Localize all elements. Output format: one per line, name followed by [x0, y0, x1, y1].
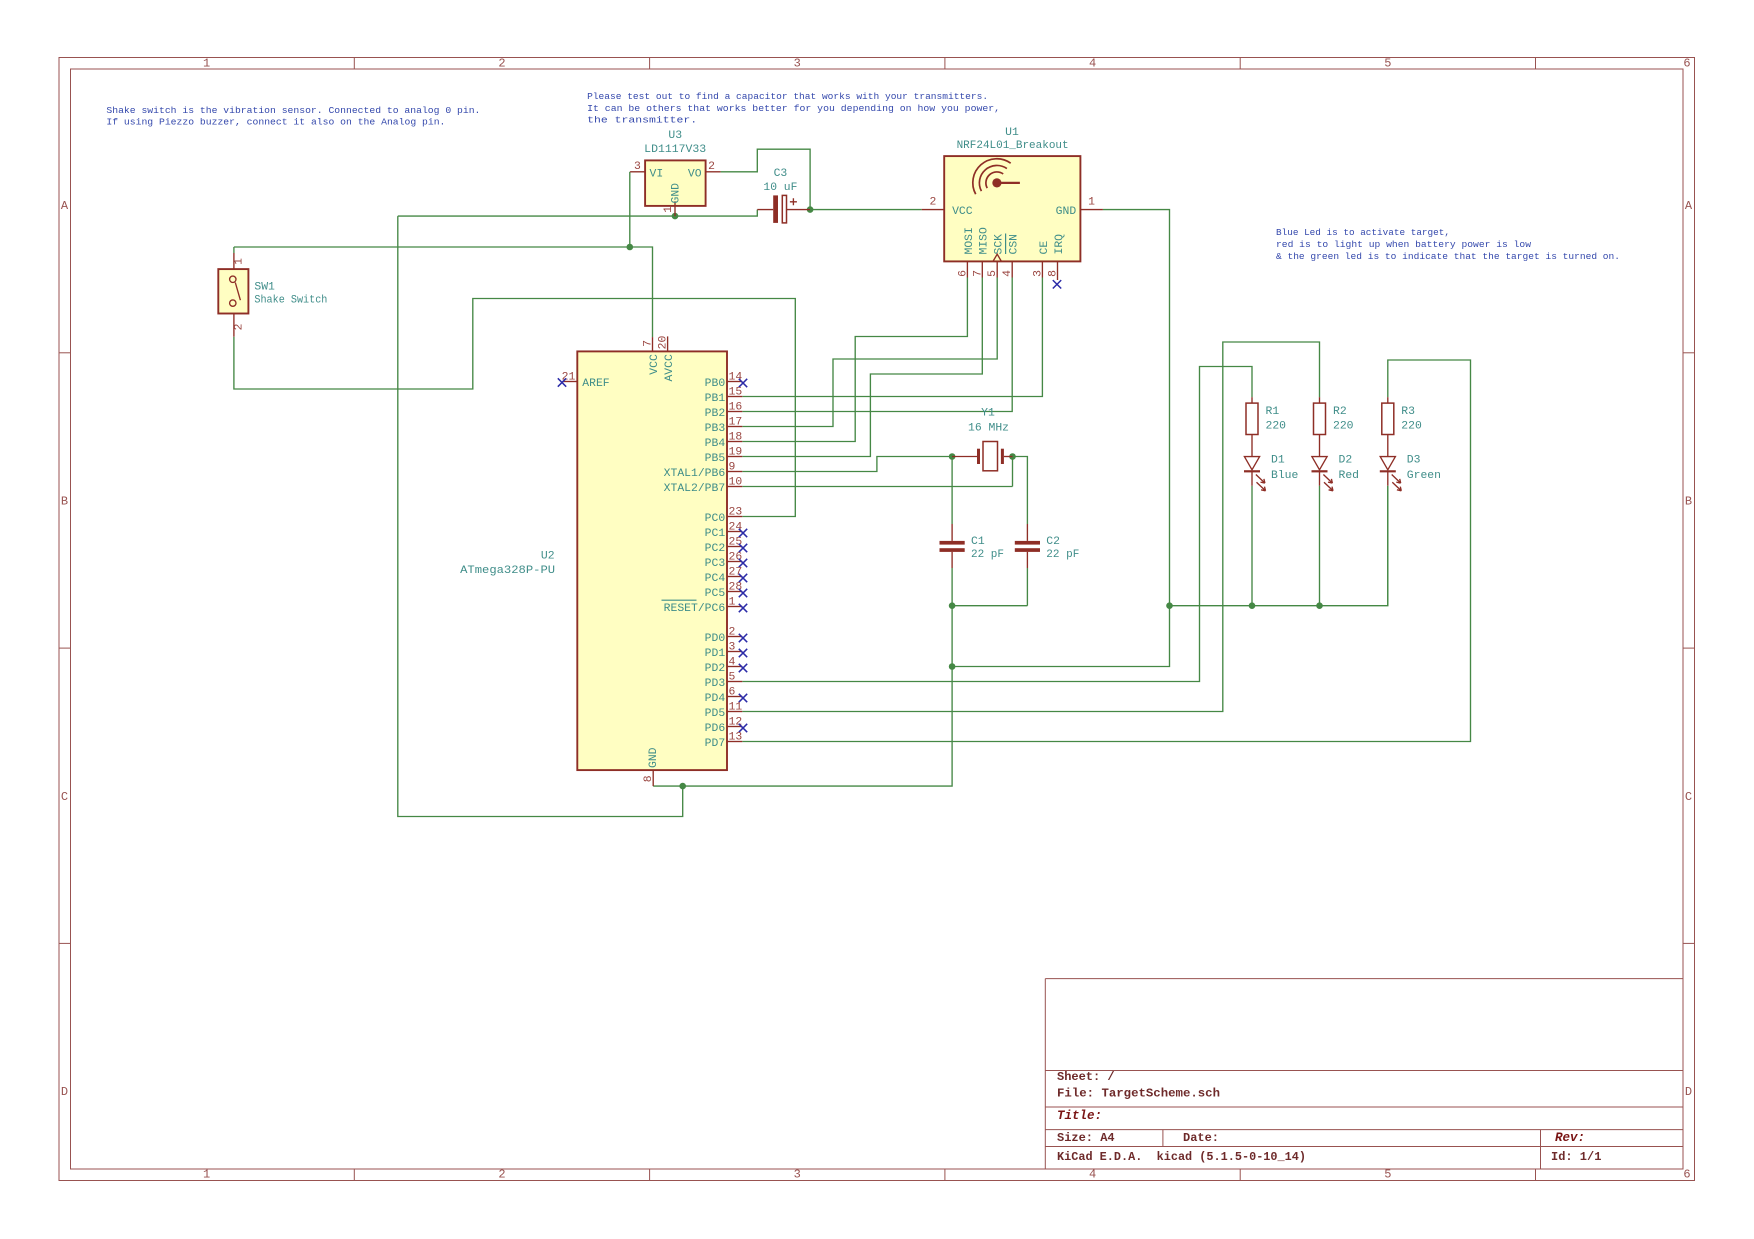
- svg-text:3: 3: [1032, 270, 1044, 277]
- svg-text:2: 2: [729, 627, 736, 639]
- svg-text:6: 6: [1683, 57, 1690, 71]
- svg-text:PC0: PC0: [705, 513, 726, 525]
- svg-text:Y1: Y1: [981, 408, 995, 420]
- svg-text:VCC: VCC: [649, 354, 661, 375]
- svg-text:MOSI: MOSI: [964, 227, 976, 254]
- svg-text:Title:: Title:: [1057, 1109, 1102, 1123]
- svg-text:C2: C2: [1046, 536, 1060, 548]
- svg-text:2: 2: [498, 1168, 505, 1182]
- svg-text:25: 25: [729, 537, 743, 549]
- svg-text:A: A: [1685, 199, 1693, 213]
- svg-text:R2: R2: [1333, 406, 1347, 418]
- svg-text:CSN: CSN: [1009, 234, 1021, 255]
- svg-text:6: 6: [957, 270, 969, 277]
- svg-text:2: 2: [929, 197, 936, 209]
- svg-text:D2: D2: [1339, 454, 1353, 466]
- svg-text:It can be others that works be: It can be others that works better for y…: [587, 103, 1000, 114]
- svg-text:PD2: PD2: [705, 663, 726, 675]
- svg-text:C3: C3: [774, 168, 788, 180]
- svg-text:Shake Switch: Shake Switch: [254, 295, 327, 307]
- svg-text:ATmega328P-PU: ATmega328P-PU: [460, 565, 555, 577]
- svg-text:PB4: PB4: [705, 438, 726, 450]
- svg-text:C1: C1: [971, 536, 985, 548]
- svg-text:22 pF: 22 pF: [971, 549, 1004, 561]
- svg-text:R3: R3: [1401, 406, 1415, 418]
- svg-text:File: TargetScheme.sch: File: TargetScheme.sch: [1057, 1087, 1220, 1101]
- svg-text:1: 1: [203, 57, 210, 71]
- svg-text:5: 5: [1384, 57, 1391, 71]
- svg-text:& the green led is to indicate: & the green led is to indicate that the …: [1276, 251, 1620, 262]
- svg-text:PB2: PB2: [705, 408, 726, 420]
- svg-text:Sheet: /: Sheet: /: [1057, 1070, 1115, 1084]
- svg-text:220: 220: [1266, 421, 1287, 433]
- svg-text:GND: GND: [1056, 206, 1077, 218]
- svg-text:PB1: PB1: [705, 393, 726, 405]
- svg-text:1: 1: [1088, 197, 1095, 209]
- svg-text:PC3: PC3: [705, 558, 726, 570]
- svg-text:B: B: [1685, 494, 1692, 508]
- svg-text:24: 24: [729, 522, 743, 534]
- svg-text:PD0: PD0: [705, 633, 726, 645]
- svg-text:3: 3: [729, 642, 736, 654]
- svg-text:23: 23: [729, 507, 743, 519]
- svg-text:8: 8: [1048, 270, 1060, 277]
- svg-text:Date:: Date:: [1183, 1131, 1219, 1145]
- svg-text:Rev:: Rev:: [1555, 1131, 1585, 1145]
- svg-text:KiCad E.D.A. kicad (5.1.5-0-1: KiCad E.D.A. kicad (5.1.5-0-10_14): [1057, 1150, 1306, 1164]
- svg-text:VCC: VCC: [952, 206, 973, 218]
- svg-text:PB3: PB3: [705, 423, 726, 435]
- svg-text:PB5: PB5: [705, 453, 726, 465]
- svg-text:11: 11: [729, 702, 743, 714]
- svg-text:Blue Led is to activate target: Blue Led is to activate target,: [1276, 227, 1450, 238]
- svg-text:16 MHz: 16 MHz: [968, 422, 1009, 434]
- svg-text:D3: D3: [1407, 454, 1421, 466]
- svg-text:4: 4: [1089, 57, 1096, 71]
- svg-text:9: 9: [729, 462, 736, 474]
- svg-text:Id: 1/1: Id: 1/1: [1551, 1150, 1601, 1164]
- svg-text:12: 12: [729, 717, 743, 729]
- svg-text:LD1117V33: LD1117V33: [644, 144, 706, 156]
- svg-text:C: C: [1685, 790, 1692, 804]
- svg-text:14: 14: [729, 372, 743, 384]
- svg-text:Please test out to find a capa: Please test out to find a capacitor that…: [587, 91, 988, 102]
- svg-text:RESET/PC6: RESET/PC6: [664, 603, 726, 615]
- svg-text:U2: U2: [541, 550, 555, 562]
- svg-text:PD7: PD7: [705, 738, 726, 750]
- svg-text:26: 26: [729, 552, 743, 564]
- svg-text:20: 20: [658, 336, 670, 350]
- svg-text:VI: VI: [650, 168, 664, 180]
- svg-text:D: D: [61, 1085, 68, 1099]
- svg-text:PD4: PD4: [705, 693, 726, 705]
- svg-text:16: 16: [729, 402, 743, 414]
- svg-text:4: 4: [729, 657, 736, 669]
- svg-text:AREF: AREF: [582, 378, 610, 390]
- svg-text:17: 17: [729, 417, 743, 429]
- svg-text:27: 27: [729, 567, 743, 579]
- svg-text:Shake switch is the vibration: Shake switch is the vibration sensor. Co…: [106, 105, 480, 116]
- svg-text:the transmitter.: the transmitter.: [587, 115, 697, 126]
- svg-text:XTAL1/PB6: XTAL1/PB6: [664, 468, 726, 480]
- svg-text:GND: GND: [670, 183, 682, 204]
- svg-text:22 pF: 22 pF: [1046, 549, 1079, 561]
- svg-text:2: 2: [708, 161, 715, 173]
- svg-text:MISO: MISO: [979, 227, 991, 255]
- svg-text:Size: A4: Size: A4: [1057, 1131, 1115, 1145]
- svg-text:1: 1: [203, 1168, 210, 1182]
- svg-text:5: 5: [729, 672, 736, 684]
- svg-text:PC4: PC4: [705, 573, 726, 585]
- svg-text:D1: D1: [1271, 454, 1285, 466]
- svg-text:PB0: PB0: [705, 378, 726, 390]
- svg-text:PC1: PC1: [705, 528, 726, 540]
- svg-text:19: 19: [729, 447, 743, 459]
- svg-text:NRF24L01_Breakout: NRF24L01_Breakout: [957, 140, 1069, 152]
- svg-text:1: 1: [233, 258, 245, 265]
- svg-text:7: 7: [972, 270, 984, 277]
- svg-text:7: 7: [643, 340, 655, 347]
- svg-text:220: 220: [1401, 421, 1422, 433]
- svg-text:R1: R1: [1266, 406, 1280, 418]
- svg-text:5: 5: [1384, 1168, 1391, 1182]
- svg-text:AVCC: AVCC: [664, 354, 676, 382]
- svg-text:8: 8: [643, 775, 655, 782]
- svg-text:PC2: PC2: [705, 543, 726, 555]
- svg-text:6: 6: [729, 687, 736, 699]
- svg-text:SW1: SW1: [254, 282, 275, 294]
- svg-text:13: 13: [729, 732, 743, 744]
- svg-text:220: 220: [1333, 421, 1354, 433]
- svg-text:18: 18: [729, 432, 743, 444]
- svg-text:red is to light up when batter: red is to light up when battery power is…: [1276, 239, 1531, 250]
- svg-text:PD1: PD1: [705, 648, 726, 660]
- svg-text:U1: U1: [1005, 127, 1019, 139]
- svg-text:15: 15: [729, 387, 743, 399]
- svg-text:PC5: PC5: [705, 588, 726, 600]
- svg-text:VO: VO: [688, 168, 702, 180]
- svg-text:28: 28: [729, 582, 743, 594]
- svg-text:6: 6: [1683, 1168, 1690, 1182]
- svg-text:3: 3: [794, 1168, 801, 1182]
- svg-text:3: 3: [634, 161, 641, 173]
- svg-text:1: 1: [729, 597, 736, 609]
- svg-text:SCK: SCK: [994, 234, 1006, 255]
- svg-text:10 uF: 10 uF: [763, 182, 797, 194]
- svg-text:5: 5: [987, 270, 999, 277]
- svg-text:Red: Red: [1339, 470, 1360, 482]
- svg-text:U3: U3: [668, 130, 682, 142]
- svg-text:If using Piezzo buzzer, connec: If using Piezzo buzzer, connect it also …: [106, 117, 445, 128]
- svg-text:1: 1: [663, 206, 675, 213]
- svg-text:Green: Green: [1407, 470, 1441, 482]
- svg-text:2: 2: [233, 323, 245, 330]
- svg-text:CE: CE: [1039, 241, 1051, 255]
- svg-text:PD6: PD6: [705, 723, 726, 735]
- svg-text:A: A: [61, 199, 69, 213]
- svg-text:10: 10: [729, 477, 743, 489]
- svg-text:3: 3: [794, 57, 801, 71]
- svg-text:PD5: PD5: [705, 708, 726, 720]
- svg-text:XTAL2/PB7: XTAL2/PB7: [664, 483, 726, 495]
- svg-text:D: D: [1685, 1085, 1692, 1099]
- svg-text:2: 2: [498, 57, 505, 71]
- svg-text:IRQ: IRQ: [1054, 234, 1066, 255]
- svg-text:GND: GND: [648, 747, 660, 768]
- svg-text:B: B: [61, 494, 68, 508]
- svg-text:PD3: PD3: [705, 678, 726, 690]
- svg-text:4: 4: [1002, 270, 1014, 277]
- svg-text:C: C: [61, 790, 68, 804]
- svg-text:Blue: Blue: [1271, 470, 1299, 482]
- svg-text:4: 4: [1089, 1168, 1096, 1182]
